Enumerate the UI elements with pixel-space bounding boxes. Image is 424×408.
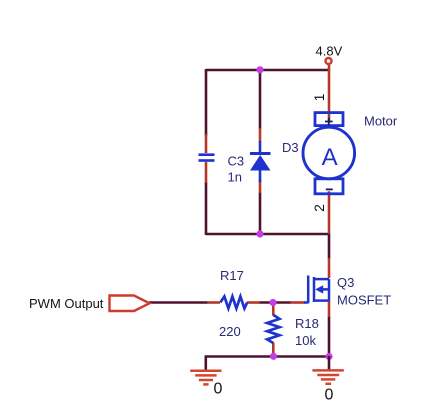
svg-text:PWM Output: PWM Output <box>29 296 104 311</box>
svg-text:C3: C3 <box>228 154 245 169</box>
svg-text:0: 0 <box>214 381 223 398</box>
svg-text:MOSFET: MOSFET <box>337 293 391 308</box>
svg-text:Q3: Q3 <box>337 275 354 290</box>
svg-text:A: A <box>322 144 338 171</box>
svg-text:D3: D3 <box>282 140 299 155</box>
svg-text:1n: 1n <box>228 170 242 185</box>
svg-text:4.8V: 4.8V <box>316 44 343 59</box>
svg-text:R17: R17 <box>220 268 244 283</box>
svg-text:220: 220 <box>219 324 241 339</box>
svg-text:1: 1 <box>311 93 327 101</box>
svg-text:2: 2 <box>311 204 327 212</box>
svg-text:R18: R18 <box>295 316 319 331</box>
svg-text:10k: 10k <box>295 333 316 348</box>
svg-text:Motor: Motor <box>364 114 398 129</box>
svg-text:0: 0 <box>325 387 334 404</box>
